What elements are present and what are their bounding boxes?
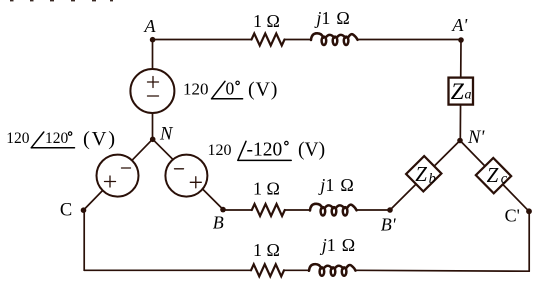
wire C' down (528, 211, 530, 271)
wire B to R2 (223, 209, 252, 211)
resistor R3 (251, 264, 284, 276)
impedance Zb (406, 156, 441, 191)
wire N to C (84, 139, 153, 210)
label 120 angle -120 (V) (208, 139, 326, 160)
inductor L2 (310, 204, 357, 216)
wire A to source Van (152, 40, 154, 71)
wire A to R1 (153, 39, 252, 41)
svg-text:B: B (213, 213, 224, 233)
svg-text:1 Ω: 1 Ω (253, 240, 280, 260)
svg-text:(V): (V) (248, 79, 278, 101)
wire C down (83, 210, 85, 270)
svg-text:j1 Ω: j1 Ω (318, 175, 353, 195)
wire L2 to B' (357, 209, 390, 211)
node C (60, 200, 86, 220)
wire source Van to N (152, 112, 154, 139)
node A' (451, 15, 468, 43)
svg-text:-120: -120 (247, 139, 283, 160)
svg-text:Z: Z (451, 79, 465, 105)
svg-text:(V): (V) (83, 128, 117, 150)
svg-text:A: A (144, 16, 157, 36)
svg-text:120: 120 (6, 130, 30, 147)
wire A' to N' through Za (459, 40, 462, 141)
wire L1 to A' (358, 39, 461, 41)
voltage source Vbn (165, 155, 207, 197)
impedance Za (449, 78, 474, 105)
svg-text:1 Ω: 1 Ω (253, 179, 280, 199)
svg-text:b: b (429, 171, 436, 187)
svg-text:0: 0 (226, 79, 235, 99)
wire N' to B' through Zb (390, 141, 460, 211)
resistor R2 (252, 204, 285, 216)
node N' (457, 128, 485, 148)
wire R2 to L2 (285, 209, 310, 211)
svg-text:C: C (60, 200, 72, 220)
svg-text:N': N' (467, 128, 485, 148)
svg-text:j1 Ω: j1 Ω (320, 235, 355, 255)
wire R3 to L3 (284, 269, 309, 271)
svg-text:Z: Z (415, 162, 427, 186)
svg-text:(V): (V) (298, 140, 325, 161)
svg-text:120: 120 (208, 142, 232, 159)
node B' (381, 207, 397, 234)
svg-text:N: N (159, 125, 174, 145)
node A (144, 16, 157, 43)
wire N' to C' through Zc (460, 141, 529, 212)
svg-text:1 Ω: 1 Ω (253, 11, 280, 31)
svg-text:j1 Ω: j1 Ω (314, 8, 349, 28)
voltage source Van (130, 69, 174, 113)
voltage source Vcn (97, 155, 139, 197)
wire L3 to C' (356, 269, 529, 272)
wire R1 to L1 (285, 39, 312, 41)
inductor L3 (309, 264, 356, 276)
label 120 angle 0 (V) (183, 79, 278, 101)
impedance Zc (476, 158, 511, 193)
svg-text:Z: Z (487, 163, 499, 187)
resistor R1 (252, 34, 285, 46)
wire N to B (153, 139, 223, 209)
node N (150, 125, 174, 145)
label 120 angle 120 (V) (6, 128, 117, 150)
svg-text:120: 120 (183, 80, 209, 99)
svg-text:a: a (465, 87, 472, 102)
svg-text:C': C' (505, 206, 520, 226)
wire C to R3 (84, 269, 251, 271)
svg-text:120: 120 (45, 130, 69, 147)
svg-text:A': A' (451, 15, 468, 35)
inductor L1 (311, 33, 358, 45)
node C' (505, 206, 532, 226)
node B (213, 207, 226, 233)
svg-text:B': B' (381, 214, 397, 234)
svg-text:c: c (501, 171, 508, 187)
